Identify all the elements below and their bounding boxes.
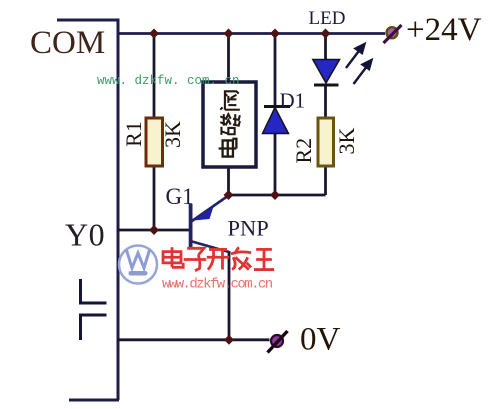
LED diode: [313, 60, 340, 84]
svg-text:COM: COM: [30, 25, 105, 61]
svg-text:LED: LED: [309, 8, 346, 29]
junction dot at D1 top: [270, 29, 280, 39]
wire 0V rail: [117, 338, 270, 341]
wire D1 lead: [274, 33, 277, 195]
watermark logo circle W: [119, 246, 157, 284]
junction dot at R1 top: [149, 29, 159, 39]
solenoid valve box (electromagnetic valve): [203, 82, 256, 167]
wire COM rail to +24V: [117, 32, 385, 35]
svg-text:G1: G1: [166, 184, 194, 209]
terminal 0V: [268, 331, 288, 353]
terminal +24V: [384, 25, 402, 43]
junction dot at collector 0V node: [224, 335, 234, 345]
junction dot at base node: [149, 225, 159, 235]
svg-text:www.dzkfw.com.cn: www.dzkfw.com.cn: [162, 277, 273, 293]
wire PLC left boundary vertical: [117, 19, 120, 401]
svg-text:+24V: +24V: [406, 12, 482, 48]
label ci (magnetic) char of solenoid: [220, 114, 240, 135]
LED light arrow 2: [354, 60, 372, 84]
wire LED top lead: [324, 33, 327, 60]
label fa (valve) char of solenoid: [220, 91, 240, 109]
junction dot at LED top: [321, 29, 331, 39]
transistor Q1 emitter arrow (PNP): [194, 207, 214, 221]
wire solenoid top lead: [227, 33, 230, 82]
svg-text:0V: 0V: [300, 322, 341, 358]
watermark char wang (king) red: [254, 249, 274, 269]
wire PLC top edge: [57, 19, 117, 22]
resistor R1: [146, 118, 163, 166]
watermark char dian (electric) red: [163, 247, 183, 267]
wire R1 bottom lead: [153, 166, 156, 230]
wire R1 top lead: [153, 33, 156, 118]
svg-text:Y0: Y0: [65, 217, 105, 253]
wire transistor base lead from Y0: [117, 229, 189, 232]
wire LED to R2 lead: [324, 85, 327, 118]
svg-text:www. dzkfw. com. cn: www. dzkfw. com. cn: [97, 74, 240, 88]
wire solenoid bottom lead: [227, 167, 230, 196]
svg-text:3K: 3K: [160, 121, 185, 148]
LED light arrow 1: [346, 44, 365, 68]
svg-text:R1: R1: [121, 121, 146, 147]
transistor Q1 base bar: [189, 204, 193, 250]
wire PLC bottom edge: [69, 399, 119, 402]
wire collector vertical to 0V: [228, 251, 231, 340]
watermark char kai (open) red: [207, 249, 229, 269]
svg-text:PNP: PNP: [228, 216, 269, 241]
wire mid rail under solenoid: [229, 194, 326, 197]
junction dot at solenoid top: [224, 29, 234, 39]
svg-text:R2: R2: [291, 138, 316, 164]
wire R2 bottom lead: [324, 166, 327, 195]
junction dot at D1 bottom: [270, 190, 280, 200]
PLC internal contact symbol: [79, 279, 107, 340]
svg-text:3K: 3K: [334, 127, 359, 154]
label dian (electric) char of solenoid: [219, 139, 237, 157]
watermark char zi (son) red: [184, 248, 206, 270]
svg-text:D1: D1: [280, 89, 306, 113]
diode D1: [264, 105, 290, 108]
watermark char fa (develop) red: [231, 247, 251, 269]
junction dot at emitter node: [224, 190, 234, 200]
resistor R2: [318, 118, 334, 166]
transistor Q1 emitter line: [192, 196, 229, 222]
transistor Q1 collector line: [192, 242, 229, 253]
